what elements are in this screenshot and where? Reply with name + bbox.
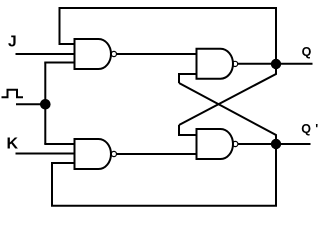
wire cross diagonal from Q' node to U3 bottom input [179, 83, 276, 140]
node Q junction [271, 59, 281, 69]
svg-text:Q: Q [301, 122, 311, 136]
svg-text:': ' [315, 122, 318, 136]
svg-text:Q: Q [302, 45, 312, 59]
wire U1 bottom input (clock) [44, 62, 75, 64]
wire U2 output to U4 bottom input [117, 153, 198, 155]
wire U2 top input (clock) [44, 143, 75, 145]
svg-text:J: J [8, 33, 17, 50]
svg-text:K: K [7, 136, 19, 153]
wire U4 top input jog [179, 125, 198, 135]
wire top feedback rail from Q node to gate U1 top input [60, 8, 277, 64]
nand gate U3 bubble [233, 61, 238, 66]
wire U3 output to Q terminal [238, 63, 313, 65]
wire U3 bottom input jog [179, 74, 198, 83]
wire U4 output to Q' terminal [238, 143, 311, 145]
nand gate U2 body [75, 139, 111, 169]
nand gate U4 body [197, 129, 234, 159]
nand gate U3 body [197, 49, 234, 79]
wire J input [16, 53, 76, 55]
nand gate U2 bubble [111, 151, 116, 156]
wire U1 top input stub [59, 43, 76, 45]
wire bottom feedback rail from Q' node to gate U2 bottom input [52, 144, 276, 206]
wire clock vertical [44, 63, 46, 145]
clock pulse symbol [2, 90, 24, 97]
nand gate U1 body [75, 39, 111, 69]
nand gate U4 bubble [233, 141, 238, 146]
wire K input [16, 153, 76, 155]
wire cross diagonal from Q node to U4 top input [179, 68, 276, 125]
wire U2 bottom input stub [51, 162, 76, 164]
nand gate U1 bubble [111, 51, 116, 56]
wire U1 output to U3 top input [117, 53, 198, 55]
node Q' junction [271, 139, 281, 149]
wire clock stub [16, 103, 45, 105]
node clock junction [40, 99, 51, 110]
